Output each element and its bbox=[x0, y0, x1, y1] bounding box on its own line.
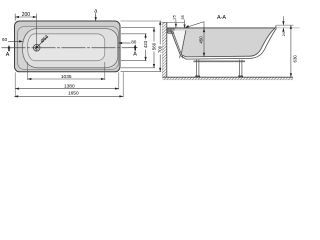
tub section body fill bbox=[170, 28, 276, 57]
svg-text:35: 35 bbox=[180, 14, 185, 19]
width dim 560 bbox=[153, 28, 155, 68]
svg-text:24: 24 bbox=[282, 32, 286, 36]
bowl floor outline bbox=[28, 34, 105, 61]
diagonal leader line bbox=[185, 22, 204, 28]
rim right end lip bbox=[275, 25, 277, 28]
svg-text:1035: 1035 bbox=[61, 74, 72, 80]
svg-text:200: 200 bbox=[22, 12, 31, 18]
small rim dims extension lines bbox=[175, 20, 177, 28]
section marker A right bbox=[134, 47, 136, 51]
support leg right bbox=[238, 60, 240, 77]
svg-text:1650: 1650 bbox=[68, 91, 79, 97]
svg-text:700: 700 bbox=[158, 45, 163, 53]
svg-text:1380: 1380 bbox=[64, 84, 75, 90]
svg-text:630: 630 bbox=[292, 55, 297, 63]
drain funnel line bbox=[181, 30, 186, 55]
total height dim 630 bbox=[290, 25, 292, 77]
centerline (section cut A-A) bbox=[2, 47, 138, 49]
depth dim 450 bbox=[203, 22, 205, 57]
section marker A left bbox=[8, 47, 10, 51]
rim rolled edge (left) bbox=[167, 28, 174, 33]
tub rim line bbox=[167, 27, 276, 29]
svg-text:60: 60 bbox=[2, 37, 8, 42]
drain stub bbox=[179, 56, 181, 59]
bottom dims extension lines bbox=[15, 62, 123, 97]
wall hatched strip bbox=[162, 23, 166, 78]
dimension 200 bbox=[15, 14, 37, 21]
dimension 1035 bbox=[28, 78, 105, 80]
tub left wall line bbox=[171, 30, 181, 56]
svg-text:560: 560 bbox=[151, 42, 156, 50]
svg-text:A: A bbox=[133, 51, 137, 57]
bowl opening outline bbox=[22, 28, 117, 67]
svg-text:80: 80 bbox=[131, 40, 137, 45]
support leg left bbox=[195, 60, 197, 77]
svg-text:A: A bbox=[6, 52, 10, 58]
width dims extension lines bbox=[121, 21, 162, 72]
support rail bbox=[194, 60, 246, 62]
width dim 700 bbox=[159, 21, 161, 72]
svg-text:450: 450 bbox=[198, 36, 203, 44]
drain recess white sliver bbox=[173, 31, 185, 55]
tub outer shell bottom line bbox=[181, 28, 277, 59]
drain label diameter 52 bbox=[35, 36, 48, 49]
bowl inner floor line bbox=[181, 28, 275, 57]
drain circle bbox=[33, 44, 40, 51]
width dim 433 bbox=[145, 34, 147, 61]
svg-text:A-A: A-A bbox=[217, 15, 226, 21]
floor hatched strip bbox=[162, 77, 293, 80]
svg-text:433: 433 bbox=[143, 40, 148, 48]
svg-text:25: 25 bbox=[171, 14, 176, 19]
right rim extension lines bbox=[277, 24, 294, 26]
rim height dim 24 bbox=[282, 16, 284, 25]
dimension 1650 bbox=[14, 95, 123, 97]
tub outer rim outline bbox=[15, 21, 121, 72]
small rim dim line bbox=[162, 21, 185, 23]
dimension 1380 bbox=[15, 88, 119, 90]
drain vertical extension line bbox=[36, 14, 38, 52]
rim inner edge line bbox=[18, 27, 119, 70]
